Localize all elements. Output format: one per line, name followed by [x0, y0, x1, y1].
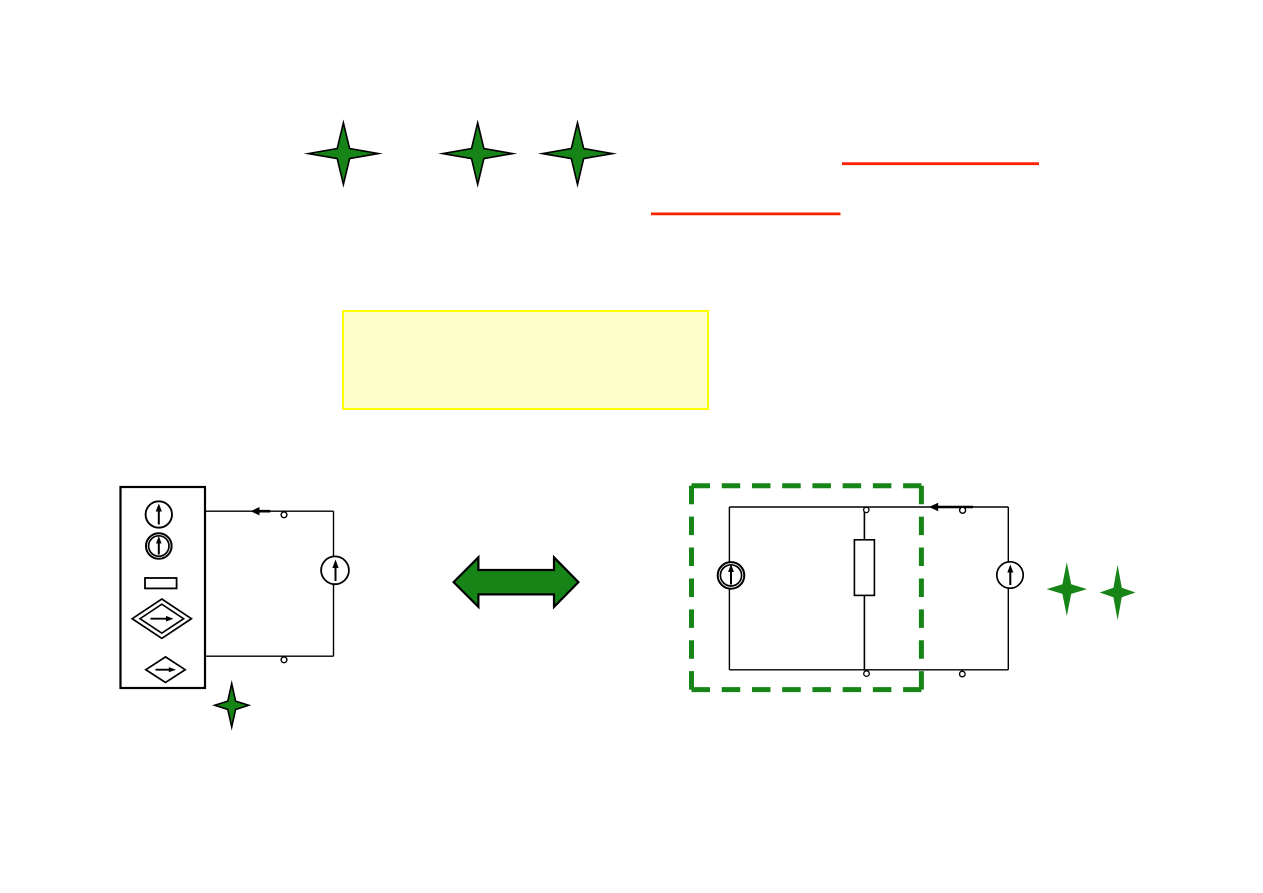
current arrow on top wire (right circuit) [929, 503, 973, 511]
terminal a (left circuit) [281, 512, 287, 518]
yellow highlight box [343, 311, 708, 409]
bullet star 2 [443, 123, 513, 185]
terminal node top of resistor [864, 507, 869, 512]
equivalence double arrow [454, 557, 579, 607]
terminal bottom of resistor [864, 671, 870, 677]
dependent source (double diamond, right arrow) [132, 599, 191, 638]
current source I (right circuit, circle with up arrow) [997, 562, 1023, 588]
green star A (right of circuit) [1047, 562, 1087, 616]
red underline (upper right) [842, 162, 1039, 165]
wire bottom (right circuit) [729, 669, 1008, 671]
current arrow on top wire (left circuit) [251, 507, 271, 515]
small green star (below left circuit) [215, 684, 249, 727]
Norton current source (double circle, up arrow) [718, 562, 745, 589]
wire top (right circuit) [729, 506, 1008, 508]
green dashed box (Norton equivalent enclosure) [692, 486, 922, 690]
wire top (left circuit) [205, 510, 334, 512]
current source I (left circuit, circle with up arrow) [321, 556, 349, 584]
resistor branch wire (right circuit) [863, 507, 865, 670]
terminal b (left circuit) [281, 657, 287, 663]
black-box outline (left network) [121, 487, 206, 688]
red underline (lower left) [651, 212, 841, 215]
wire left vertical (right circuit) [728, 507, 730, 670]
wire bottom (left circuit) [205, 655, 334, 657]
independent voltage source symbol (circle, up arrow) [146, 501, 172, 527]
green star B (far right) [1100, 565, 1136, 620]
resistor RN (box symbol) [854, 540, 874, 596]
resistor (box symbol) inside black box [145, 578, 177, 588]
bullet star 1 [308, 123, 378, 185]
wire right vertical (right circuit) [1007, 507, 1009, 670]
wire right vertical (left circuit) [333, 511, 335, 656]
terminal b (right circuit) [960, 671, 966, 677]
independent current source symbol (double circle, up arrow) [146, 533, 172, 559]
terminal a (right circuit) [960, 507, 966, 513]
bullet star 3 [543, 123, 613, 185]
dependent source (diamond, right arrow) [146, 657, 185, 683]
